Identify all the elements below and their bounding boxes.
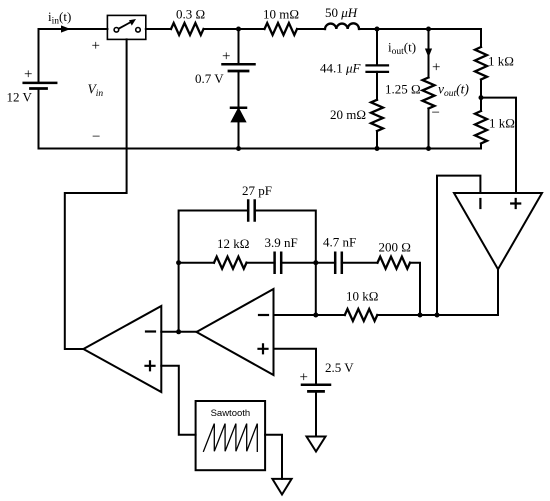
wire between divider resistors	[480, 80, 482, 112]
capacitor C1 44.1uF top plate	[367, 64, 389, 66]
op-amp U2 plus mark	[259, 344, 268, 353]
svg-text:10 kΩ: 10 kΩ	[346, 289, 378, 304]
wire bottom ground rail	[39, 148, 482, 150]
wire top rail corner down to divider	[480, 29, 482, 47]
wire top rail left segment	[39, 29, 108, 83]
junction node D middle row	[313, 260, 318, 265]
svg-text:10 mΩ: 10 mΩ	[263, 7, 299, 22]
svg-text:1 kΩ: 1 kΩ	[489, 116, 515, 131]
svg-text:3.9 nF: 3.9 nF	[265, 235, 298, 250]
wire 10 mohm to inductor	[297, 28, 325, 30]
wire 0.3 ohm to 10 mohm	[204, 28, 265, 30]
wire left column to U1 minus row	[178, 263, 180, 332]
op-amp U2 triangle	[197, 289, 274, 375]
battery V2 0.7V long plate	[223, 63, 255, 66]
wire 27pF row left	[179, 211, 249, 263]
battery V1 12V long plate	[24, 82, 57, 85]
wire node B branch: 44.1uF cap top	[376, 29, 378, 65]
battery V2 0.7V short plate	[229, 70, 248, 73]
svg-text:2.5 V: 2.5 V	[325, 360, 354, 375]
inductor L 50 uH	[325, 23, 359, 29]
wire U2 plus input to 2.5V battery	[274, 349, 317, 385]
svg-text:iin(t): iin(t)	[48, 9, 71, 27]
wire row: U2 minus input to 10k	[274, 314, 345, 316]
junction node on rail at diode branch	[236, 146, 241, 151]
diode D1 cathode bar	[231, 107, 246, 110]
wire switch control line to op-amp U3 output	[65, 39, 127, 349]
junction node left column middle row	[176, 260, 181, 265]
wire op-amp U3 output down to row	[497, 269, 499, 315]
switch S1 right contact	[136, 28, 141, 33]
switch S1 arm	[119, 23, 130, 29]
wire 12k to cap 3.9nF	[247, 262, 275, 264]
arrow switch arm head	[129, 19, 136, 26]
wire 1.25 ohm to rail	[428, 109, 430, 149]
svg-text:12 V: 12 V	[7, 90, 33, 105]
wire U3 feedback to minus input	[437, 176, 480, 315]
svg-text:Sawtooth: Sawtooth	[211, 408, 251, 419]
svg-text:12 kΩ: 12 kΩ	[217, 236, 249, 251]
junction node top at diode branch	[236, 27, 241, 32]
op-amp U1 minus mark	[146, 330, 155, 332]
wire row: 10k to U3 output	[377, 314, 498, 316]
svg-text:200 Ω: 200 Ω	[379, 240, 411, 255]
junction node rail at 1.25 ohm	[426, 146, 431, 151]
svg-text:50 μH: 50 μH	[325, 5, 358, 20]
junction node top at 1.25 ohm branch	[426, 27, 431, 32]
wire node C branch: 1.25 ohm top	[428, 29, 430, 78]
svg-text:−: −	[92, 129, 100, 145]
resistor R 10 mOhm	[265, 23, 298, 35]
wire cap C1 to 20 mohm	[376, 72, 378, 100]
svg-text:20 mΩ: 20 mΩ	[330, 107, 366, 122]
resistor R 1 kOhm lower	[475, 111, 487, 144]
svg-text:+: +	[300, 370, 308, 386]
battery V3 2.5V long plate	[302, 383, 330, 386]
op-amp U1 triangle	[83, 306, 161, 392]
capacitor C1 44.1uF bottom plate	[367, 71, 389, 73]
wire battery V3 to ground	[315, 391, 317, 436]
capacitor C 27pF plates	[248, 201, 255, 221]
wire inductor to right corner	[359, 28, 481, 30]
resistor R 1 kOhm upper	[475, 47, 487, 80]
wire 3.9nF to node D	[281, 262, 335, 264]
sawtooth source box	[196, 401, 266, 470]
wire switch to 0.3 ohm	[146, 28, 171, 30]
wire diode to rail	[238, 122, 240, 149]
op-amp U3 triangle	[454, 193, 542, 269]
svg-text:1.25 Ω: 1.25 Ω	[385, 82, 421, 97]
op-amp U1 plus mark	[146, 361, 155, 370]
battery V3 2.5V short plate	[309, 390, 324, 393]
svg-text:44.1 μF: 44.1 μF	[320, 61, 362, 76]
junction node rail at 20 mohm	[375, 146, 380, 151]
wire divider tap to op-amp U3 plus input	[481, 98, 516, 193]
sawtooth waveform	[204, 424, 258, 452]
switch S1 left contact	[114, 28, 119, 33]
battery V1 12V short plate	[31, 87, 47, 90]
svg-text:0.3 Ω: 0.3 Ω	[176, 7, 205, 22]
capacitor C 4.7nF plates	[335, 253, 342, 273]
wire sawtooth output to ground	[265, 435, 282, 479]
svg-text:+: +	[92, 38, 100, 54]
svg-text:+: +	[432, 60, 440, 76]
wire 27pF row right	[255, 211, 316, 263]
junction node divider tap	[479, 95, 484, 100]
op-amp U2 minus mark	[259, 314, 268, 316]
capacitor C 3.9nF plates	[275, 253, 282, 273]
op-amp U3 minus mark	[479, 199, 481, 208]
op-amp U3 plus mark	[511, 199, 520, 208]
resistor R 20 mOhm	[371, 100, 383, 131]
svg-text:0.7 V: 0.7 V	[195, 71, 224, 86]
wire node A branch: 0.7V battery top	[238, 29, 240, 64]
resistor R 10 kOhm	[345, 309, 378, 321]
junction node 200 ohm branch at row	[418, 313, 423, 318]
wire divider bottom to rail	[480, 144, 482, 149]
svg-text:1 kΩ: 1 kΩ	[488, 54, 514, 69]
resistor R 200 Ohm	[378, 257, 411, 269]
arrow i_out on 1.25 ohm branch	[425, 49, 432, 58]
ground symbol under sawtooth	[272, 479, 291, 495]
switch S1 box	[107, 15, 145, 39]
resistor R 12 kOhm	[214, 257, 247, 269]
junction node left column U1 minus row	[176, 329, 181, 334]
wire battery bottom to rail	[38, 89, 40, 149]
wire battery V2 to diode	[238, 71, 240, 108]
wire middle row left node to 12k	[179, 262, 214, 264]
wire node D column down to U2 minus row	[315, 263, 317, 315]
wire U1 plus input to sawtooth	[161, 366, 195, 435]
svg-text:27 pF: 27 pF	[242, 183, 272, 198]
resistor R 0.3 Ohm	[171, 23, 204, 35]
svg-text:4.7 nF: 4.7 nF	[323, 235, 356, 250]
junction node feedback at row	[435, 313, 440, 318]
resistor R 1.25 Ohm	[423, 78, 435, 109]
arrow i_in on top wire	[61, 25, 71, 32]
wire 4.7nF to 200 ohm	[342, 262, 378, 264]
svg-text:−: −	[432, 105, 440, 121]
diode D1 triangle	[232, 109, 246, 122]
junction node D at U2 minus row	[313, 313, 318, 318]
wire 20 mohm to rail	[376, 131, 378, 149]
ground symbol under 2.5V battery	[307, 437, 326, 452]
wire U1 minus input to U2 output	[161, 331, 196, 333]
wire 200 ohm branch down to row	[410, 263, 420, 315]
svg-text:+: +	[24, 67, 32, 83]
svg-text:+: +	[222, 49, 230, 65]
junction node top at 44.1uF branch	[375, 27, 380, 32]
